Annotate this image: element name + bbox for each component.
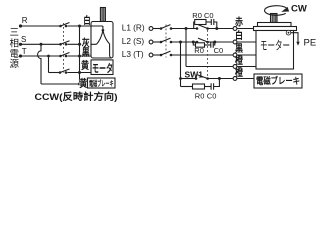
wire: top snubber right + riser down xyxy=(214,22,217,29)
svg-text:源: 源 xyxy=(9,59,19,70)
node: junction dot L1 x186 xyxy=(185,27,188,30)
wire: brake riser B from L1 down to orange1 row xyxy=(185,29,187,67)
label: three-phase source (vertical text) xyxy=(9,27,19,70)
svg-text:R: R xyxy=(22,16,28,25)
node: junction dot on T line xyxy=(47,55,50,58)
svg-text:R0: R0 xyxy=(195,91,205,100)
wire: orange1 terminal to motor box xyxy=(237,66,256,68)
svg-text:モーター: モーター xyxy=(260,39,290,53)
svg-text:相: 相 xyxy=(9,38,19,50)
motor M1: star winding symbol xyxy=(91,26,112,58)
svg-text:S: S xyxy=(21,35,26,44)
svg-text:L3 (T): L3 (T) xyxy=(122,49,144,59)
svg-text:CW: CW xyxy=(291,3,307,14)
motor M1: body box xyxy=(91,22,113,59)
motor M2: body box xyxy=(256,31,294,70)
svg-text:白: 白 xyxy=(83,14,91,27)
resistor R0 (top snubber) xyxy=(195,20,206,25)
motor M2: CW rotation arrow xyxy=(265,6,290,16)
node: junction dot R line x79 xyxy=(78,25,81,28)
node: L2 input circle xyxy=(149,40,153,44)
node: junction dot L2 x180.5 xyxy=(179,41,182,44)
node: L1 input circle xyxy=(149,27,153,31)
switch: SW1 pole on brake line xyxy=(181,75,234,80)
node: dot at top snubber right landing xyxy=(215,27,218,30)
switch: main power switch pole L3 xyxy=(160,51,233,56)
wire: orange1 row from riser B to motor xyxy=(186,66,233,68)
node: T input terminal xyxy=(19,54,22,57)
wire: middle snubber right + riser up xyxy=(213,42,215,45)
wire: riser from R line down to yellow lead 1 xyxy=(79,26,81,84)
node: junction dot T line x79 xyxy=(78,55,81,58)
node: junction dot yellow2 x79.5 xyxy=(78,83,81,86)
wire: brake riser from T phase down to switch pole 4 xyxy=(48,56,50,73)
svg-text:C0: C0 xyxy=(214,46,224,55)
node: dot at middle snubber right landing xyxy=(213,41,216,44)
wire: red terminal to motor box xyxy=(237,28,256,30)
svg-text:黒: 黒 xyxy=(235,43,243,55)
motor M2: flange plate lower xyxy=(254,27,297,31)
capacitor C0 (middle snubber) xyxy=(211,42,213,48)
svg-text:R0: R0 xyxy=(192,11,202,20)
wire: L1 to main contact xyxy=(153,28,161,30)
svg-text:T: T xyxy=(22,47,27,56)
wire: top snubber middle xyxy=(206,21,211,23)
node: junction dot yellow1 x79 xyxy=(78,71,81,74)
svg-text:三: 三 xyxy=(9,27,19,38)
wire: brake riser from S phase down to yellow lead 2 xyxy=(38,44,41,84)
capacitor C0 (bottom snubber) xyxy=(211,83,214,89)
wire: L2 to main contact xyxy=(153,41,161,43)
brake B1: label box 電磁ブレーキ (left) xyxy=(88,78,116,88)
node: black terminal circle xyxy=(233,53,237,57)
wire: middle snubber middle xyxy=(205,44,211,46)
wire: bottom snubber middle xyxy=(205,86,211,88)
resistor R0 (middle snubber) xyxy=(196,43,205,47)
switch: SW1 pole on L1 line xyxy=(196,25,233,30)
wire: white terminal to motor box xyxy=(237,41,256,43)
wire: PE lead with arrow xyxy=(291,33,300,46)
wire: yellow lead 2 into brake box xyxy=(41,83,88,85)
svg-text:黄: 黄 xyxy=(81,59,89,72)
snubber bottom: riser left xyxy=(181,86,193,88)
svg-text:白: 白 xyxy=(235,29,243,42)
svg-text:橙: 橙 xyxy=(235,66,244,79)
svg-text:PE: PE xyxy=(304,38,317,49)
label: lead gray 灰 xyxy=(81,36,90,49)
svg-text:L2 (S): L2 (S) xyxy=(122,36,145,46)
svg-text:L1 (R): L1 (R) xyxy=(122,22,145,32)
svg-text:R0: R0 xyxy=(194,46,204,55)
linkage: SW1 dashed gang line xyxy=(207,30,209,77)
wire: black terminal to motor box xyxy=(237,54,256,56)
switch: main switch pole S xyxy=(59,41,91,46)
svg-text:電磁ブレーキ: 電磁ブレーキ xyxy=(256,75,300,86)
svg-text:モータ: モータ xyxy=(92,62,113,75)
node: junction dot on S line xyxy=(40,43,43,46)
motor M2: shaft xyxy=(271,14,278,23)
switch: main power switch pole L2 xyxy=(160,38,197,43)
resistor R0 (bottom snubber) xyxy=(193,84,205,89)
linkage: main switch dashed gang line xyxy=(63,23,65,73)
switch: main switch pole 4 (brake) xyxy=(49,69,92,74)
svg-text:SW1: SW1 xyxy=(185,70,204,80)
svg-text:C0: C0 xyxy=(204,11,214,20)
svg-text:C0: C0 xyxy=(207,91,217,100)
switch: SW1 pole on L2 line xyxy=(196,38,233,43)
node: orange2 terminal circle xyxy=(233,77,237,81)
brake B2: box 電磁ブレーキ xyxy=(254,74,302,88)
svg-text:CCW(反時計方向): CCW(反時計方向) xyxy=(35,91,118,103)
node: L3 input circle xyxy=(149,53,153,57)
node: junction dot S line x79 xyxy=(78,43,81,46)
wire: S line from source to switch xyxy=(21,43,61,45)
node: R input terminal xyxy=(19,24,22,27)
wire: orange2 terminal to brake box xyxy=(237,78,254,80)
node: dot at bottom snubber right landing xyxy=(218,77,221,80)
label: lead yellow2 黄 xyxy=(79,77,87,90)
linkage: main switch dashed gang line xyxy=(165,25,167,58)
svg-text:黄: 黄 xyxy=(79,77,87,90)
wire: T line from source to switch (with hop over brake riser) xyxy=(21,55,61,57)
wire: L3 to main contact xyxy=(153,54,161,56)
snubber middle: riser left from L2 xyxy=(193,42,195,45)
switch: main switch pole T xyxy=(59,53,91,58)
switch: main power switch pole L1 xyxy=(160,25,197,30)
capacitor C0 (top snubber) xyxy=(211,19,214,25)
motor M2: grounding screw xyxy=(286,30,291,35)
wire: R line from source to switch xyxy=(21,25,61,27)
svg-text:赤: 赤 xyxy=(235,15,243,28)
snubber top: riser left xyxy=(194,22,195,29)
node: red terminal circle xyxy=(233,27,237,31)
switch: main switch pole R xyxy=(59,23,91,28)
wire: brake riser A from L2 down to orange2 row xyxy=(180,42,182,87)
motor M1: label box モータ xyxy=(91,60,113,75)
svg-text:電磁ブレーキ: 電磁ブレーキ xyxy=(89,78,114,88)
node: white terminal circle xyxy=(233,40,237,44)
node: orange1 terminal circle xyxy=(233,65,237,69)
node: junction dot brake row left xyxy=(179,77,182,80)
svg-text:黒: 黒 xyxy=(82,47,90,59)
motor M2: flange plate upper xyxy=(258,23,292,27)
svg-text:橙: 橙 xyxy=(235,54,244,67)
node: S input terminal xyxy=(19,43,22,46)
wire: bottom snubber right + riser up xyxy=(214,79,220,87)
motor M1: shaft (left diagram) xyxy=(100,8,105,22)
node: dot at middle snubber left xyxy=(192,41,195,44)
